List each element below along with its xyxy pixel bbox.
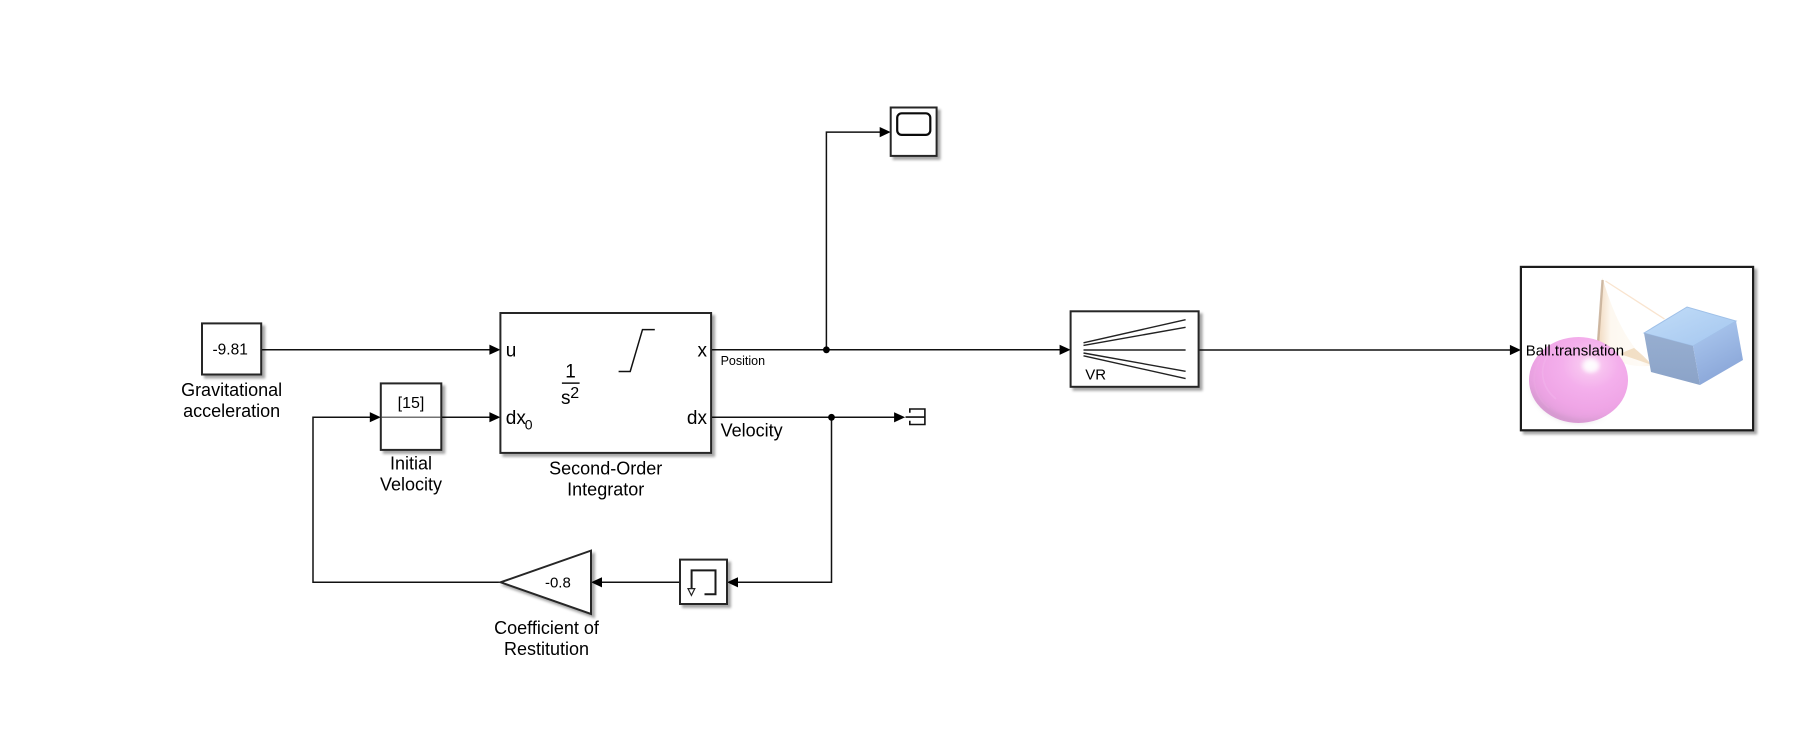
sphere: [1529, 337, 1628, 423]
junction on velocity wire: [828, 414, 835, 421]
svg-text:Second-Order: Second-Order: [549, 458, 662, 478]
svg-text:-9.81: -9.81: [213, 342, 248, 359]
label Second-Order Integrator: [549, 458, 662, 499]
svg-text:Integrator: Integrator: [567, 479, 644, 499]
wire arrowhead into terminator: [894, 412, 905, 422]
wire Position: x output to VR: [711, 349, 1060, 351]
sphere highlight: [1583, 360, 1599, 373]
wire memory to gain: [602, 581, 681, 583]
svg-text:Restitution: Restitution: [504, 639, 589, 659]
wire VR to VR sink: [1199, 349, 1511, 351]
svg-text:Initial: Initial: [390, 454, 432, 474]
label Gravitational acceleration: [181, 380, 282, 421]
svg-text:[15]: [15]: [398, 395, 425, 412]
cube right face: [1693, 321, 1743, 385]
cone: [1597, 278, 1652, 366]
memory block: [680, 560, 727, 604]
icon saturation glyph: [619, 330, 655, 372]
wire arrowhead into u port: [489, 345, 500, 355]
svg-text:acceleration: acceleration: [183, 401, 280, 421]
svg-text:VR: VR: [1085, 367, 1106, 384]
wire Velocity: dx output to terminator: [711, 416, 895, 418]
svg-text:0: 0: [525, 417, 533, 433]
svg-text:u: u: [506, 340, 517, 361]
label Coefficient of Restitution: [494, 618, 600, 659]
svg-text:Ball.translation: Ball.translation: [1526, 343, 1624, 360]
junction on position wire: [823, 346, 830, 353]
Second-Order Integrator block: [500, 313, 711, 453]
wire arrowhead into VR: [1060, 345, 1071, 355]
cube left face: [1644, 333, 1700, 385]
svg-text:x: x: [698, 340, 708, 361]
wire: [261, 349, 490, 351]
wire arrowhead into VR sink: [1510, 345, 1521, 355]
sphere shadow lower left: [1530, 382, 1607, 423]
svg-text:Gravitational: Gravitational: [181, 380, 282, 400]
svg-text:1: 1: [565, 361, 576, 382]
cube top face: [1644, 307, 1736, 346]
svg-text:Coefficient of: Coefficient of: [494, 618, 600, 638]
label Initial Velocity: [380, 454, 442, 495]
VR sink block Ball.translation: [1521, 267, 1753, 430]
wire arrowhead into memory right side: [727, 577, 738, 587]
wire arrowhead into dx0 port: [489, 412, 500, 422]
svg-text:-0.8: -0.8: [545, 574, 571, 591]
terminator: [906, 409, 925, 425]
svg-text:Velocity: Velocity: [721, 421, 783, 441]
wire arrowhead into scope: [880, 127, 891, 137]
scope block: [891, 108, 937, 156]
gain block -0.8: [501, 551, 591, 614]
constant block -9.81: [202, 323, 261, 374]
svg-text:2: 2: [570, 385, 579, 402]
IC block [15]: [381, 383, 442, 450]
wire branch up to scope: [826, 132, 880, 350]
wire branch down to memory: [738, 417, 832, 582]
svg-text:s: s: [561, 388, 571, 409]
svg-text:Velocity: Velocity: [380, 475, 442, 495]
wire arrowhead into gain right side: [591, 577, 602, 587]
sphere ring bands: [1543, 355, 1556, 399]
wire gain to IC feedback: [313, 417, 501, 582]
wire: [441, 416, 490, 418]
svg-text:dx: dx: [506, 408, 527, 429]
VR block: [1071, 311, 1199, 387]
svg-text:dx: dx: [687, 408, 708, 429]
wire arrowhead into IC left side: [370, 412, 381, 422]
svg-text:Position: Position: [721, 354, 766, 368]
